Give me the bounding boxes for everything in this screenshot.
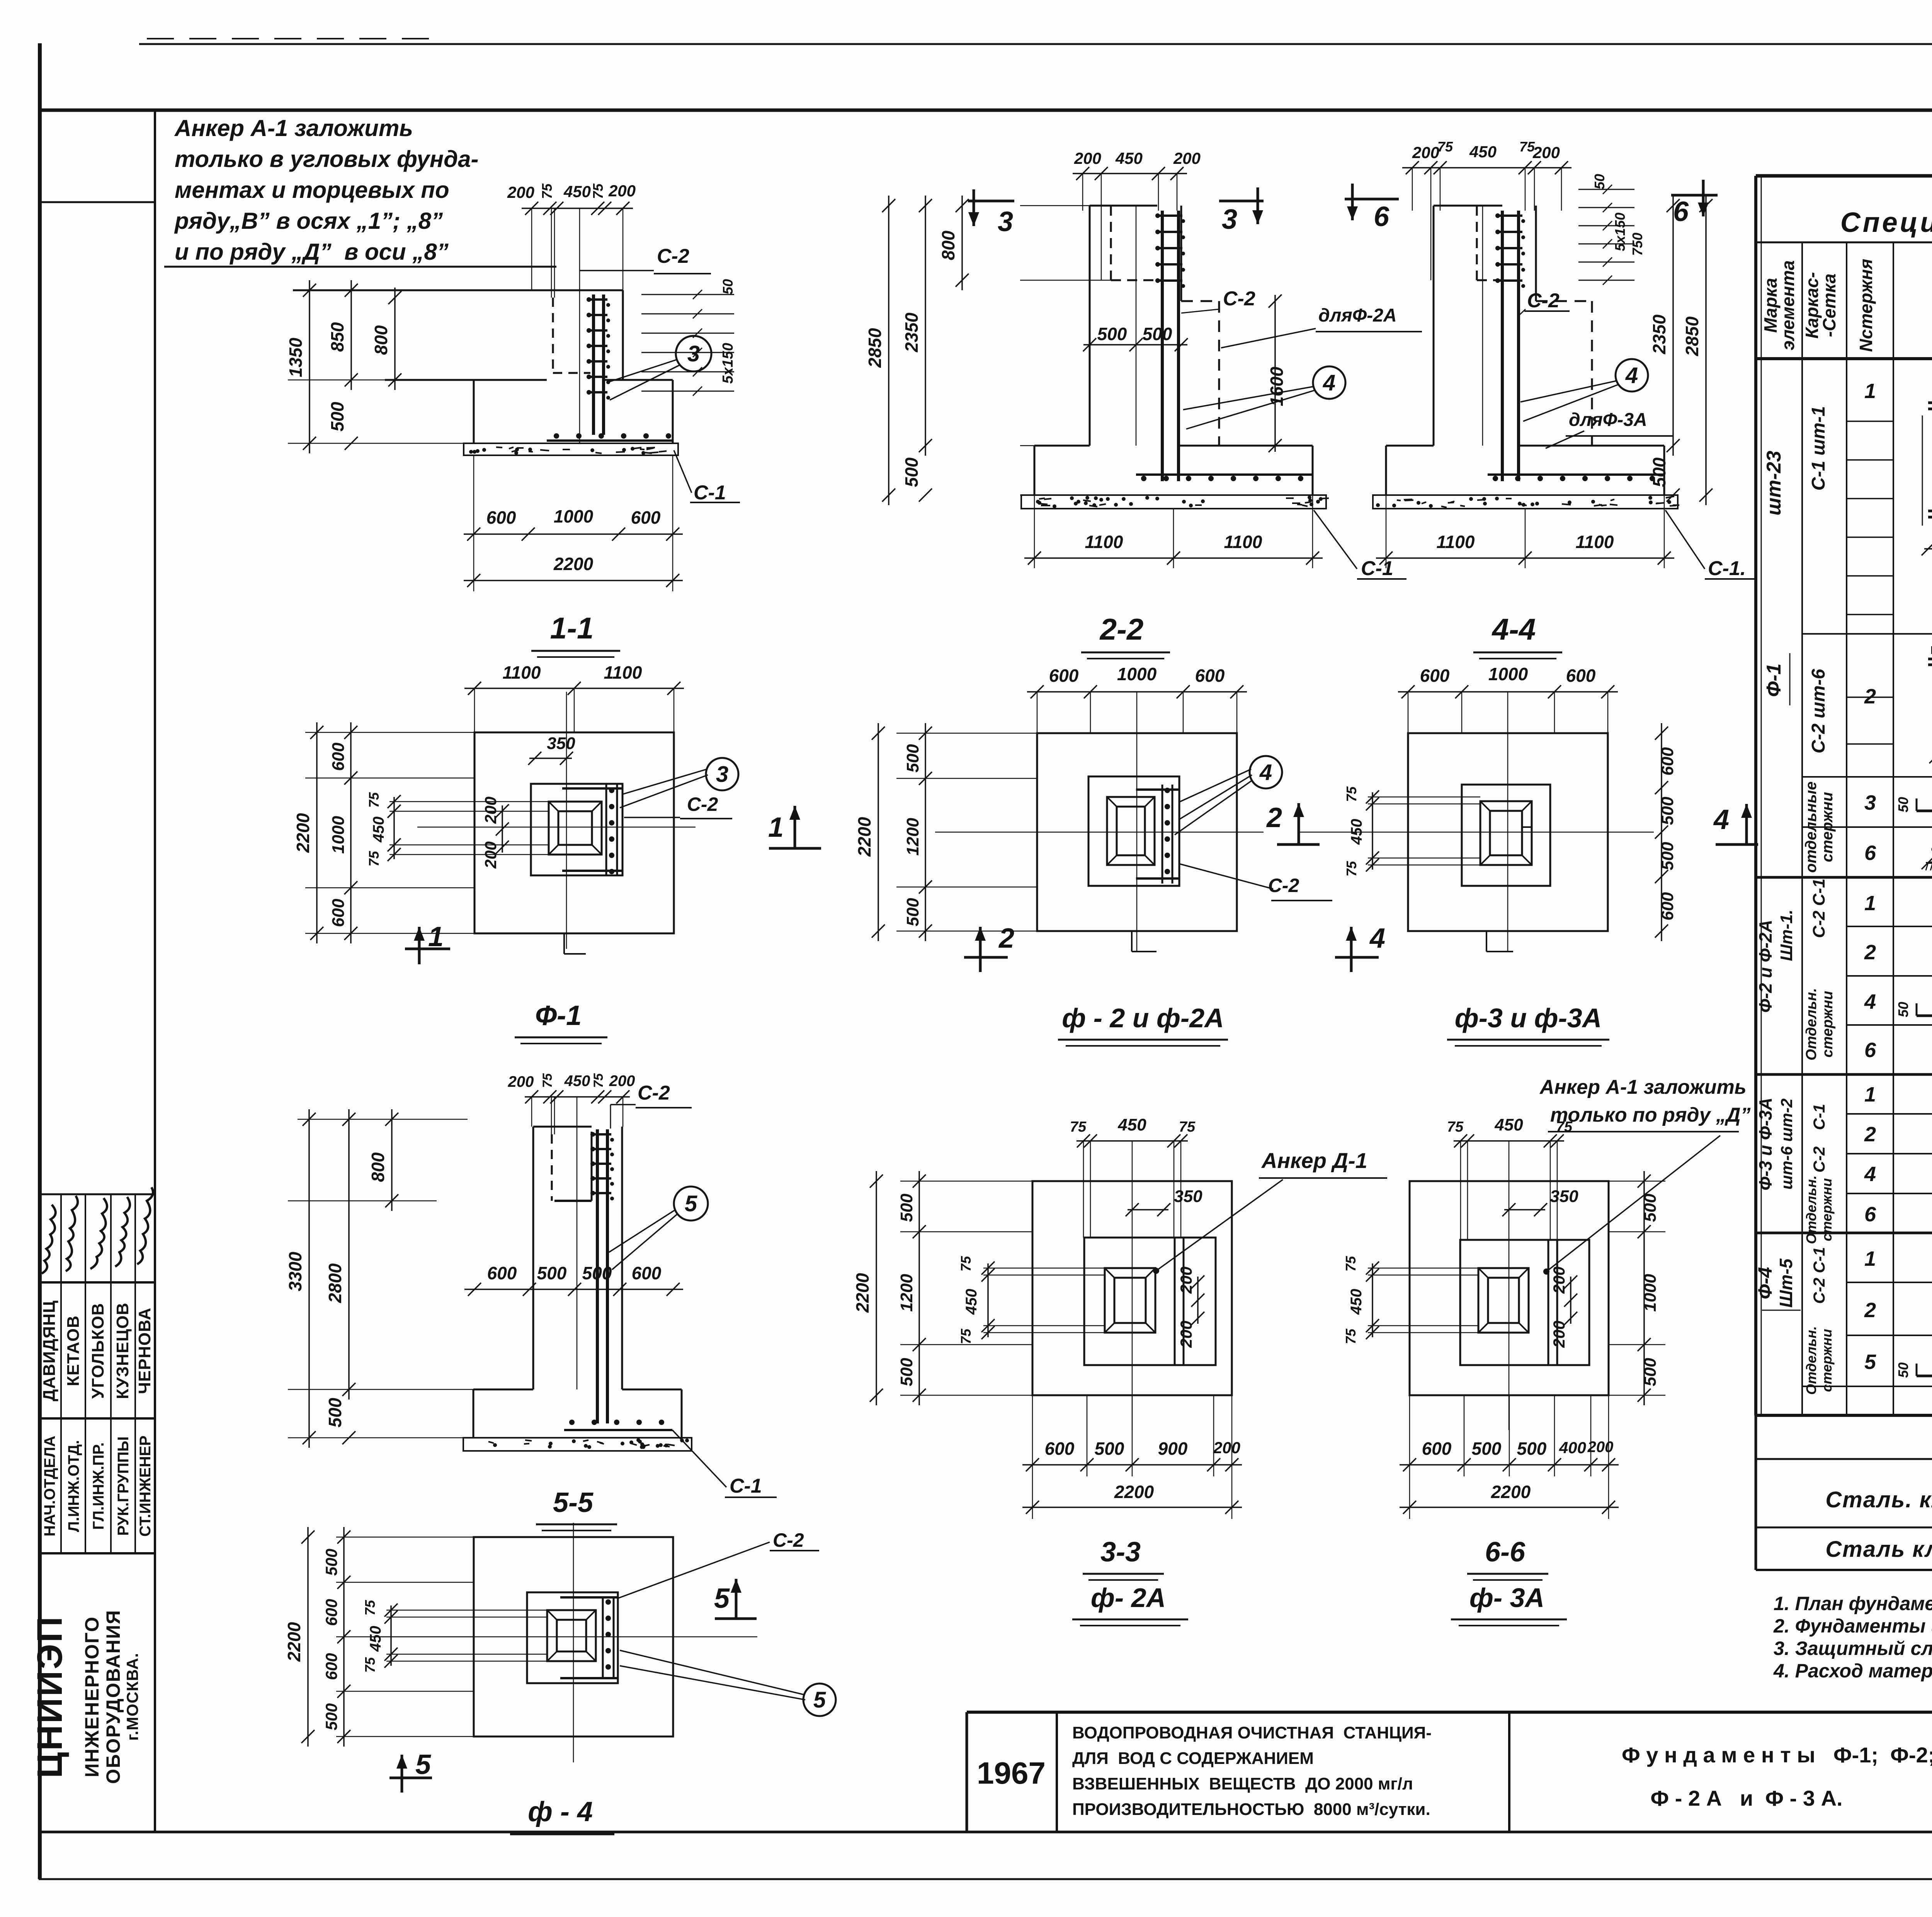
svg-text:6: 6	[1864, 1039, 1876, 1062]
outer sheet edge	[139, 43, 1932, 45]
svg-text:600: 600	[632, 1263, 662, 1283]
plan 3-3	[1077, 1140, 1188, 1142]
svg-text:50: 50	[1592, 174, 1607, 189]
svg-text:600: 600	[322, 1653, 340, 1680]
svg-text:75: 75	[1343, 1256, 1359, 1272]
svg-text:600: 600	[1566, 666, 1596, 686]
svg-text:600: 600	[487, 1263, 517, 1283]
svg-text:200: 200	[1550, 1321, 1568, 1348]
svg-text:6: 6	[1673, 196, 1689, 227]
svg-text:200: 200	[1173, 149, 1201, 167]
svg-text:75: 75	[1437, 139, 1453, 155]
svg-text:ДЛЯ ВОД С СОДЕРЖАНИЕМ: ДЛЯ ВОД С СОДЕРЖАНИЕМ	[1072, 1749, 1314, 1768]
svg-text:5: 5	[415, 1749, 431, 1780]
svg-text:4: 4	[1864, 990, 1876, 1013]
svg-text:шт-23: шт-23	[1763, 451, 1785, 516]
section F-1 wall elevation	[522, 208, 633, 209]
svg-text:элемента: элемента	[1778, 260, 1798, 351]
svg-text:350: 350	[547, 734, 575, 753]
svg-text:3-3: 3-3	[1100, 1537, 1141, 1568]
svg-text:ментах и торцевых по: ментах и торцевых по	[175, 177, 449, 203]
svg-text:75: 75	[366, 851, 382, 867]
svg-text:450: 450	[1469, 143, 1497, 161]
svg-text:75: 75	[362, 1600, 378, 1616]
svg-text:500: 500	[1658, 797, 1677, 825]
svg-text:4-4: 4-4	[1492, 612, 1536, 646]
svg-text:Шт-1.: Шт-1.	[1777, 909, 1796, 961]
svg-text:С-2: С-2	[657, 245, 689, 267]
svg-text:1350: 1350	[286, 337, 306, 377]
svg-text:900: 900	[1158, 1439, 1188, 1459]
svg-text:75: 75	[958, 1328, 974, 1344]
svg-text:500: 500	[1143, 324, 1172, 344]
svg-text:450: 450	[367, 1626, 384, 1652]
svg-text:4: 4	[1713, 804, 1729, 835]
svg-text:С-2 С-1: С-2 С-1	[1810, 1247, 1828, 1304]
svg-text:600: 600	[329, 899, 348, 927]
svg-text:5х150: 5х150	[1612, 213, 1628, 251]
svg-text:С-1: С-1	[730, 1475, 762, 1497]
selection-per-sheet table	[1756, 1458, 1932, 1460]
svg-text:450: 450	[563, 182, 591, 201]
svg-text:2350: 2350	[1649, 314, 1669, 354]
svg-text:СТ.ИНЖЕНЕР: СТ.ИНЖЕНЕР	[137, 1435, 154, 1537]
svg-text:50: 50	[1895, 1362, 1911, 1378]
svg-text:только в угловых фунда-: только в угловых фунда-	[175, 146, 479, 172]
svg-text:С-2: С-2	[1810, 1146, 1828, 1173]
svg-text:С-1: С-1	[1361, 557, 1393, 580]
svg-text:2: 2	[1864, 685, 1876, 708]
svg-text:75: 75	[1447, 1119, 1464, 1135]
svg-text:ВЗВЕШЕННЫХ ВЕЩЕСТВ ДО 2000 м: ВЗВЕШЕННЫХ ВЕЩЕСТВ ДО 2000 мг/л	[1072, 1774, 1413, 1793]
svg-text:450: 450	[370, 817, 387, 843]
svg-text:ПРОИЗВОДИТЕЛЬНОСТЬЮ 8000 м³/с: ПРОИЗВОДИТЕЛЬНОСТЬЮ 8000 м³/сутки.	[1072, 1800, 1430, 1819]
svg-text:УГОЛЬКОВ: УГОЛЬКОВ	[88, 1303, 107, 1399]
svg-text:ряду„В” в осях „1”; „8”: ряду„В” в осях „1”; „8”	[174, 208, 443, 234]
svg-text:Анкер А-1 заложить: Анкер А-1 заложить	[174, 115, 413, 141]
title block	[967, 1711, 1932, 1714]
svg-text:2850: 2850	[1682, 316, 1702, 356]
svg-text:С-2: С-2	[638, 1082, 670, 1104]
svg-text:С-1.: С-1.	[1708, 557, 1746, 580]
svg-text:1100: 1100	[1224, 532, 1262, 552]
svg-text:ф - 2 и ф-2А: ф - 2 и ф-2А	[1062, 1003, 1224, 1033]
svg-text:500: 500	[897, 1193, 916, 1222]
svg-text:50: 50	[720, 279, 736, 295]
sketch bar item 3	[1917, 810, 1932, 812]
svg-text:5-5: 5-5	[553, 1487, 594, 1518]
svg-text:3. Защитный слой принять 25 мм: 3. Защитный слой принять 25 мм.	[1774, 1638, 1932, 1659]
svg-text:ф - 4: ф - 4	[528, 1796, 593, 1827]
svg-text:600: 600	[1658, 892, 1677, 921]
svg-text:ЦНИИЭП: ЦНИИЭП	[30, 1615, 70, 1778]
svg-text:450: 450	[1348, 819, 1365, 845]
svg-text:1. План фундаментов см.лист АС: 1. План фундаментов см.лист АС-10.	[1774, 1593, 1932, 1614]
svg-text:С-2: С-2	[1527, 289, 1560, 312]
svg-text:200: 200	[1532, 143, 1560, 162]
svg-text:200: 200	[507, 183, 534, 201]
specification table	[1756, 174, 1932, 178]
svg-text:4: 4	[1323, 370, 1335, 395]
svg-text:200: 200	[1587, 1439, 1614, 1456]
svg-text:75: 75	[540, 1073, 555, 1088]
svg-text:2200: 2200	[1114, 1482, 1154, 1502]
svg-text:200: 200	[1550, 1267, 1568, 1294]
svg-text:75: 75	[539, 183, 555, 199]
svg-text:2: 2	[1864, 1123, 1876, 1146]
plan F-4	[474, 1537, 673, 1737]
svg-text:200: 200	[481, 797, 500, 824]
svg-text:С-2: С-2	[1223, 288, 1255, 310]
svg-text:75: 75	[366, 792, 382, 808]
svg-text:75: 75	[591, 1073, 606, 1088]
svg-text:РУК.ГРУППЫ: РУК.ГРУППЫ	[115, 1437, 132, 1536]
svg-text:400: 400	[1559, 1439, 1586, 1457]
svg-text:6-6: 6-6	[1485, 1537, 1526, 1568]
svg-text:500: 500	[1658, 842, 1677, 870]
svg-text:1000: 1000	[554, 506, 594, 526]
svg-text:200: 200	[1177, 1267, 1195, 1294]
svg-text:600: 600	[486, 507, 516, 528]
svg-text:450: 450	[1494, 1115, 1523, 1134]
svg-text:Ф у н д а м е н т ы Ф-1; Ф-: Ф у н д а м е н т ы Ф-1; Ф-2; Ф-3; Ф-4;	[1622, 1743, 1932, 1767]
svg-text:75: 75	[958, 1256, 974, 1272]
svg-text:200: 200	[1074, 149, 1101, 167]
svg-text:350: 350	[1550, 1187, 1578, 1206]
svg-text:1: 1	[1864, 380, 1876, 403]
svg-text:ИНЖЕНЕРНОГО: ИНЖЕНЕРНОГО	[81, 1616, 103, 1777]
svg-text:500: 500	[1097, 324, 1127, 344]
svg-text:стержни: стержни	[1820, 991, 1836, 1057]
svg-text:Ф - 2 А и Ф - 3 А.: Ф - 2 А и Ф - 3 А.	[1650, 1786, 1842, 1810]
svg-text:3: 3	[687, 341, 700, 366]
svg-text:75: 75	[1070, 1119, 1087, 1135]
svg-text:600: 600	[1049, 666, 1079, 686]
svg-text:С-1: С-1	[694, 482, 726, 504]
svg-text:стержни: стержни	[1819, 1329, 1835, 1392]
svg-text:2. Фундаменты изготовлять из б: 2. Фундаменты изготовлять из бетона марк…	[1773, 1615, 1932, 1637]
svg-text:500: 500	[1649, 457, 1669, 487]
svg-text:500: 500	[537, 1263, 567, 1283]
svg-text:г.МОСКВА.: г.МОСКВА.	[123, 1653, 141, 1741]
svg-text:4: 4	[1369, 923, 1385, 954]
svg-text:Спецификация на 1 элемент: Спецификация на 1 элемент	[1840, 207, 1932, 238]
svg-text:ВОДОПРОВОДНАЯ ОЧИСТНАЯ СТАНЦИ: ВОДОПРОВОДНАЯ ОЧИСТНАЯ СТАНЦИЯ-	[1072, 1723, 1432, 1742]
svg-text:С-2 С-1: С-2 С-1	[1810, 878, 1828, 938]
svg-text:800: 800	[938, 230, 958, 260]
F-1 left dims	[298, 290, 532, 291]
svg-text:КУЗНЕЦОВ: КУЗНЕЦОВ	[113, 1302, 132, 1399]
svg-text:600: 600	[1045, 1439, 1075, 1459]
svg-text:2: 2	[998, 923, 1014, 954]
svg-text:500: 500	[322, 1703, 340, 1730]
svg-text:6: 6	[1864, 841, 1876, 865]
svg-text:600: 600	[1195, 666, 1225, 686]
svg-text:1100: 1100	[604, 662, 642, 683]
svg-text:Анкер А-1 заложить: Анкер А-1 заложить	[1539, 1076, 1747, 1098]
svg-text:800: 800	[368, 1152, 388, 1182]
svg-text:500: 500	[1472, 1439, 1502, 1459]
svg-text:1: 1	[768, 812, 784, 843]
section 5-5 elevation	[525, 1096, 630, 1098]
svg-text:2200: 2200	[1491, 1482, 1531, 1502]
svg-text:ЧЕРНОВА: ЧЕРНОВА	[135, 1308, 154, 1394]
svg-text:1200: 1200	[897, 1274, 916, 1312]
svg-text:1000: 1000	[1641, 1274, 1660, 1312]
stamp signature table	[39, 1193, 155, 1195]
svg-text:Nстержня: Nстержня	[1856, 259, 1876, 352]
svg-text:75: 75	[1179, 1119, 1196, 1135]
stamp column divider	[154, 110, 156, 1832]
svg-text:шт-6 шт-2: шт-6 шт-2	[1777, 1098, 1796, 1190]
svg-text:5: 5	[714, 1583, 730, 1614]
svg-text:стержни: стержни	[1819, 792, 1836, 862]
sketch bar item 6	[1928, 861, 1932, 864]
svg-text:1100: 1100	[503, 662, 541, 683]
svg-text:200: 200	[481, 841, 500, 869]
svg-text:Сталь класса АII: Сталь класса АII	[1825, 1537, 1932, 1562]
svg-text:-Сетка: -Сетка	[1819, 274, 1839, 337]
svg-text:2: 2	[1864, 941, 1876, 964]
svg-text:75: 75	[590, 183, 606, 199]
svg-text:600: 600	[1422, 1439, 1452, 1459]
svg-text:ф-3 и ф-3А: ф-3 и ф-3А	[1455, 1003, 1602, 1033]
svg-text:С-2: С-2	[773, 1529, 804, 1551]
svg-text:500: 500	[901, 457, 922, 487]
svg-text:1: 1	[1864, 1247, 1876, 1270]
svg-text:75: 75	[1344, 861, 1359, 877]
svg-text:С-2 шт-6: С-2 шт-6	[1808, 669, 1829, 753]
svg-text:600: 600	[631, 507, 661, 528]
svg-text:450: 450	[1115, 149, 1143, 167]
svg-text:850: 850	[327, 322, 347, 352]
svg-text:3: 3	[716, 762, 728, 787]
svg-text:2350: 2350	[901, 312, 922, 352]
svg-text:600: 600	[1420, 666, 1450, 686]
svg-text:75: 75	[362, 1657, 378, 1673]
svg-text:6: 6	[1374, 201, 1389, 232]
svg-text:Л.ИНЖ.ОТД.: Л.ИНЖ.ОТД.	[65, 1440, 82, 1532]
F-1 bottom dims	[473, 455, 474, 591]
svg-text:3: 3	[1864, 791, 1876, 814]
svg-text:2200: 2200	[854, 817, 874, 857]
svg-text:200: 200	[609, 1073, 635, 1090]
svg-text:1: 1	[1864, 892, 1876, 915]
svg-text:200: 200	[1412, 143, 1439, 162]
svg-text:1100: 1100	[1437, 532, 1475, 552]
svg-text:1: 1	[1864, 1083, 1876, 1106]
svg-text:1100: 1100	[1085, 532, 1123, 552]
svg-text:200: 200	[1213, 1439, 1240, 1457]
svg-text:1000: 1000	[1488, 664, 1528, 684]
svg-text:500: 500	[903, 898, 922, 926]
svg-text:отдельные: отдельные	[1803, 781, 1820, 873]
svg-text:стержни: стержни	[1819, 1178, 1835, 1241]
svg-text:1100: 1100	[1576, 532, 1614, 552]
svg-text:600: 600	[322, 1599, 340, 1626]
svg-text:5х150: 5х150	[720, 343, 736, 384]
svg-text:500: 500	[1641, 1358, 1660, 1386]
section F-3 elevation	[1402, 167, 1571, 169]
svg-text:500: 500	[582, 1263, 612, 1283]
svg-text:ОБОРУДОВАНИЯ: ОБОРУДОВАНИЯ	[102, 1609, 124, 1784]
svg-text:2800: 2800	[325, 1263, 345, 1303]
svg-text:ф- 2А: ф- 2А	[1091, 1583, 1166, 1613]
svg-text:Ф-1: Ф-1	[1763, 664, 1785, 697]
svg-text:5: 5	[1864, 1350, 1876, 1374]
svg-text:5: 5	[813, 1687, 826, 1713]
svg-text:Отдельн.: Отдельн.	[1803, 988, 1820, 1061]
svg-text:2200: 2200	[284, 1622, 304, 1662]
svg-text:дляФ-3А: дляФ-3А	[1569, 410, 1647, 430]
svg-text:500: 500	[1641, 1193, 1660, 1222]
svg-text:С-2: С-2	[1268, 875, 1299, 896]
svg-text:4: 4	[1625, 363, 1638, 388]
svg-text:НАЧ.ОТДЕЛА: НАЧ.ОТДЕЛА	[41, 1436, 58, 1537]
svg-text:350: 350	[1174, 1187, 1202, 1206]
svg-text:500: 500	[1517, 1439, 1547, 1459]
svg-text:Сталь. класса АI: Сталь. класса АI	[1825, 1487, 1932, 1512]
plan 6-6	[1454, 1140, 1564, 1142]
svg-text:С-2: С-2	[687, 793, 718, 815]
svg-text:1: 1	[428, 921, 444, 952]
svg-text:1967: 1967	[977, 1756, 1046, 1790]
svg-text:500: 500	[327, 402, 347, 431]
svg-text:50: 50	[1895, 797, 1911, 812]
svg-text:500: 500	[1095, 1439, 1124, 1459]
svg-text:600: 600	[1658, 747, 1677, 776]
svg-text:2: 2	[1266, 802, 1282, 833]
svg-text:и по ряду „Д” в оси „8”: и по ряду „Д” в оси „8”	[175, 239, 449, 265]
svg-text:200: 200	[508, 1073, 534, 1090]
svg-text:500: 500	[322, 1549, 340, 1576]
svg-text:ДАВИДЯНЦ: ДАВИДЯНЦ	[40, 1300, 59, 1401]
svg-text:4. Расход материалов дан на ли: 4. Расход материалов дан на листе АС-10.	[1773, 1660, 1932, 1682]
svg-text:200: 200	[608, 182, 636, 200]
svg-text:6: 6	[1864, 1203, 1876, 1226]
svg-text:1-1: 1-1	[550, 611, 594, 645]
svg-text:450: 450	[1348, 1289, 1365, 1315]
svg-text:Анкер Д-1: Анкер Д-1	[1261, 1148, 1367, 1173]
svg-text:500: 500	[903, 744, 922, 773]
svg-text:3: 3	[1222, 204, 1237, 235]
svg-text:2200: 2200	[553, 554, 594, 574]
svg-text:1000: 1000	[329, 816, 348, 854]
svg-text:2850: 2850	[865, 328, 885, 368]
svg-text:800: 800	[371, 325, 391, 355]
svg-text:600: 600	[329, 742, 348, 771]
svg-text:Шт-5: Шт-5	[1776, 1258, 1796, 1308]
svg-text:200: 200	[1177, 1321, 1195, 1348]
inner frame	[39, 109, 1932, 112]
svg-text:С-1 шт-1: С-1 шт-1	[1808, 406, 1829, 491]
svg-text:2200: 2200	[852, 1273, 872, 1313]
svg-text:2-2: 2-2	[1099, 612, 1144, 646]
svg-text:450: 450	[1117, 1115, 1146, 1134]
svg-text:ф- 3А: ф- 3А	[1469, 1583, 1544, 1613]
svg-text:КЕТАОВ: КЕТАОВ	[64, 1315, 83, 1386]
svg-text:500: 500	[897, 1358, 916, 1386]
svg-text:Ф-3 и Ф-3А: Ф-3 и Ф-3А	[1755, 1098, 1776, 1191]
svg-text:2200: 2200	[293, 813, 313, 853]
svg-text:750: 750	[1629, 233, 1645, 256]
section F-2 elevation	[1073, 173, 1187, 174]
svg-text:50: 50	[1895, 1002, 1911, 1017]
svg-text:5: 5	[685, 1191, 697, 1216]
svg-text:450: 450	[564, 1073, 590, 1090]
svg-text:4: 4	[1864, 1163, 1876, 1186]
svg-text:75: 75	[1343, 1328, 1359, 1344]
svg-text:Отдельн.: Отдельн.	[1803, 1326, 1819, 1395]
svg-text:ГЛ.ИНЖ.ПР.: ГЛ.ИНЖ.ПР.	[90, 1442, 107, 1530]
svg-text:3300: 3300	[285, 1251, 305, 1291]
svg-text:500: 500	[325, 1398, 345, 1427]
svg-text:3: 3	[998, 206, 1013, 237]
svg-text:1200: 1200	[903, 818, 922, 856]
svg-text:Ф-1: Ф-1	[535, 1000, 582, 1031]
svg-text:дляФ-2А: дляФ-2А	[1318, 305, 1397, 326]
svg-text:Ф-2 и Ф-2А: Ф-2 и Ф-2А	[1755, 920, 1776, 1013]
svg-text:4: 4	[1259, 760, 1272, 785]
svg-text:2: 2	[1864, 1299, 1876, 1322]
svg-text:75: 75	[1344, 786, 1359, 802]
svg-text:Отдельн.: Отдельн.	[1803, 1175, 1819, 1244]
svg-text:450: 450	[963, 1289, 980, 1315]
svg-text:Ф-4: Ф-4	[1754, 1267, 1776, 1299]
svg-text:С-1: С-1	[1810, 1104, 1828, 1130]
svg-text:1000: 1000	[1117, 664, 1157, 684]
svg-text:только по ряду „Д”: только по ряду „Д”	[1550, 1104, 1751, 1126]
